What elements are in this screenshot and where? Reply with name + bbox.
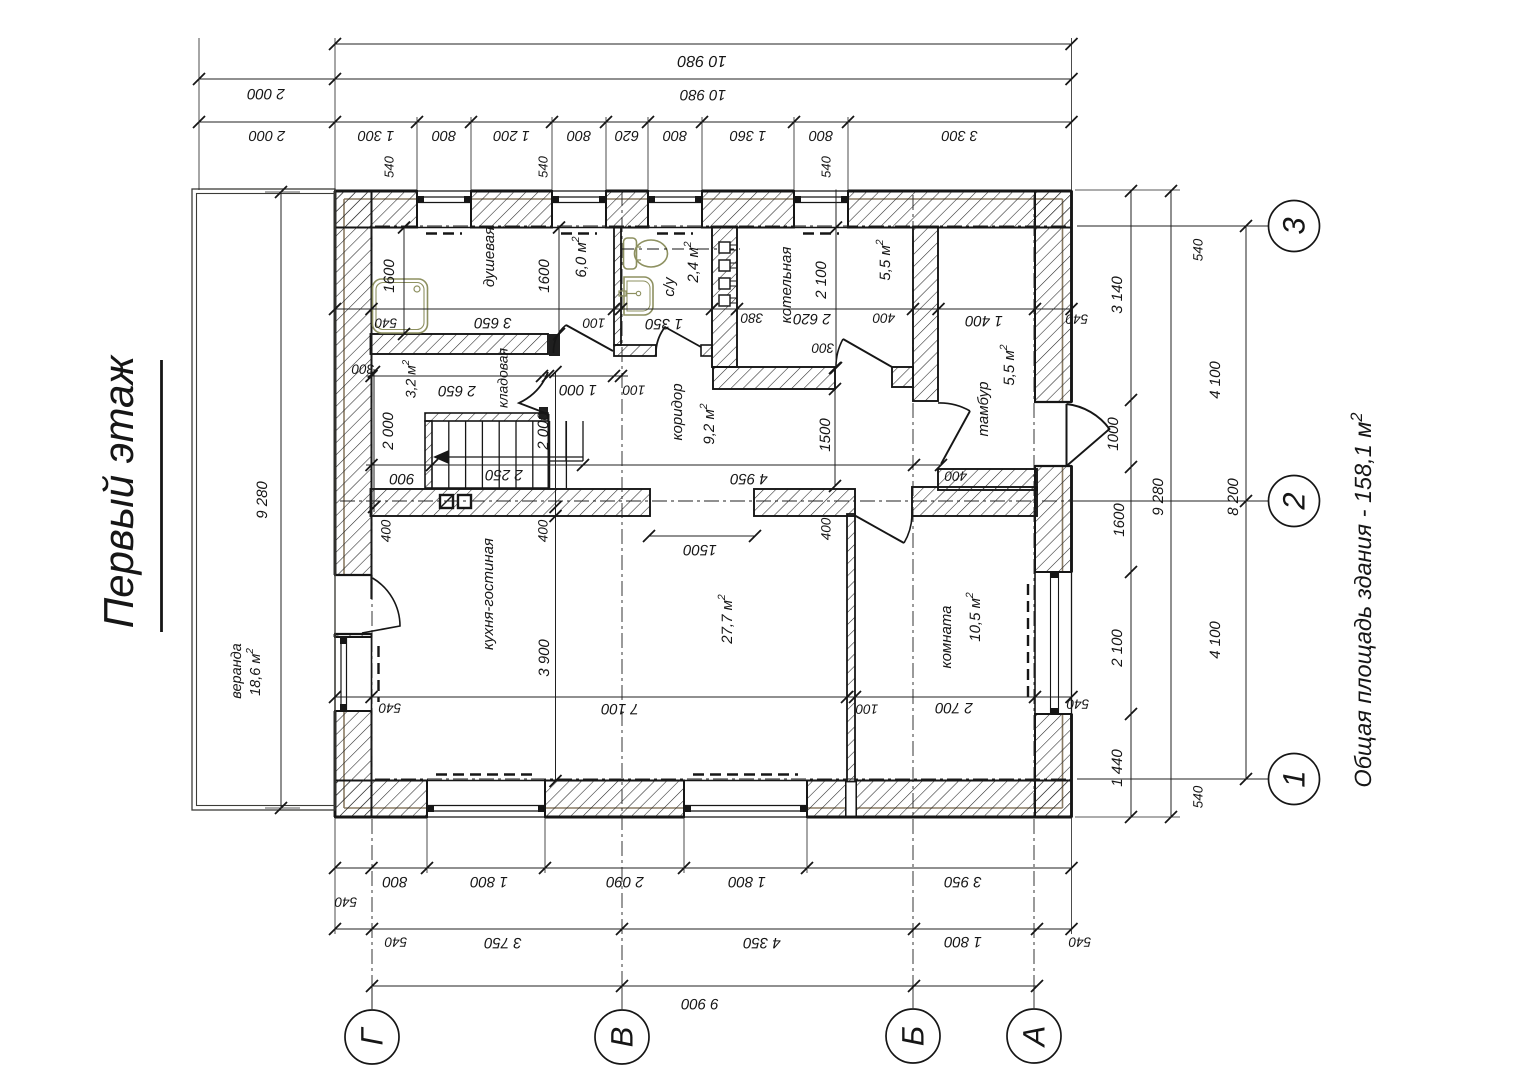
svg-text:комната: комната <box>938 606 955 669</box>
axis bubble Б <box>886 1009 940 1063</box>
svg-text:2 000: 2 000 <box>535 412 552 451</box>
door vestibule->hall <box>941 411 970 464</box>
svg-text:540: 540 <box>384 934 407 949</box>
interior dim chain y376 pantry/hall <box>366 375 628 377</box>
window in right wall (room) <box>1071 572 1073 714</box>
shower width dims 1600 <box>403 226 405 334</box>
svg-text:27,7 м2: 27,7 м2 <box>716 594 736 645</box>
svg-text:900: 900 <box>389 470 415 487</box>
svg-text:800: 800 <box>809 127 833 143</box>
svg-text:2 000: 2 000 <box>380 412 397 451</box>
svg-text:1 300: 1 300 <box>358 127 394 143</box>
window to veranda in left wall <box>334 637 336 711</box>
svg-text:2 000: 2 000 <box>247 85 286 102</box>
wall W10a: hall/kitchen wall left segment (400) <box>371 489 651 516</box>
wall W1: shower room south (300 thick) <box>371 334 549 354</box>
windows in bottom wall <box>427 816 545 818</box>
svg-text:100: 100 <box>855 701 878 716</box>
axis bubble 2 <box>1269 476 1320 527</box>
wall stub right of wc door <box>701 345 712 356</box>
svg-text:2 620: 2 620 <box>793 310 832 327</box>
stair treads <box>448 421 450 488</box>
svg-text:400: 400 <box>379 519 394 542</box>
wall: exterior bottom <box>335 781 427 818</box>
door wc <box>656 327 701 350</box>
svg-text:2 100: 2 100 <box>813 261 830 300</box>
svg-text:2 250: 2 250 <box>485 466 524 483</box>
axis bubble А <box>1007 1009 1061 1063</box>
wall W2: wc west partition (100) <box>614 227 621 346</box>
wall W8: vestibule south upper <box>938 469 1037 490</box>
radiator under window <box>426 232 462 234</box>
svg-text:Общая площадь здания - 158,1 м: Общая площадь здания - 158,1 м2 <box>1348 412 1376 787</box>
wall W7: boiler/vestibule wall (400) <box>913 227 938 402</box>
door boiler room <box>843 339 892 367</box>
svg-text:540: 540 <box>1191 238 1206 261</box>
wall W3: wc south <box>614 345 656 356</box>
windows in top wall <box>417 190 471 192</box>
svg-text:3 140: 3 140 <box>1109 276 1126 314</box>
toilet <box>624 238 637 269</box>
wall W9: vestibule south lower / room north <box>912 487 1037 516</box>
svg-text:кухня-гостиная: кухня-гостиная <box>480 538 497 650</box>
left dim 9280 line at veranda <box>280 192 282 808</box>
svg-text:1500: 1500 <box>683 541 717 558</box>
svg-text:1 440: 1 440 <box>1109 749 1126 787</box>
shower tray <box>373 279 428 333</box>
axis line A (vertical x=1034) <box>1033 195 1035 986</box>
bottom dim chain B2 axes <box>335 928 1072 930</box>
axis bubble В <box>595 1010 649 1064</box>
radiator under window <box>436 773 536 775</box>
svg-text:3 900: 3 900 <box>536 639 553 677</box>
axis line 2 (horizontal y=501) <box>340 500 1080 502</box>
door veranda->kitchen <box>370 575 372 599</box>
svg-text:1 800: 1 800 <box>944 933 982 950</box>
svg-text:1 400: 1 400 <box>965 312 1003 329</box>
svg-text:В: В <box>605 1027 640 1048</box>
axis line 1 (horizontal y=779) <box>375 778 1080 780</box>
svg-text:4 350: 4 350 <box>743 934 781 951</box>
boiler width dim 2100 <box>835 190 837 369</box>
svg-text:800: 800 <box>432 127 456 143</box>
svg-text:1 360: 1 360 <box>730 127 766 143</box>
svg-text:6,0 м2: 6,0 м2 <box>570 236 590 277</box>
svg-text:с/у: с/у <box>661 276 678 297</box>
axis bubble 1 <box>1269 754 1320 805</box>
svg-text:А: А <box>1017 1026 1052 1049</box>
svg-text:18,6 м2: 18,6 м2 <box>245 648 264 696</box>
svg-text:3 950: 3 950 <box>944 873 982 890</box>
door jamb block shower <box>549 334 560 356</box>
svg-text:4 100: 4 100 <box>1207 361 1224 399</box>
wall W10b: hall/kitchen wall right segment <box>754 489 855 516</box>
svg-text:3 300: 3 300 <box>942 127 978 143</box>
svg-text:2 090: 2 090 <box>606 873 645 890</box>
svg-text:620: 620 <box>615 127 639 143</box>
wc centerline <box>622 248 740 250</box>
partition junction slot in bottom wall <box>846 781 856 818</box>
svg-text:1500: 1500 <box>817 418 834 452</box>
dim row 3: window chain on top wall <box>199 121 1072 123</box>
door pantry <box>519 372 548 414</box>
wall W6: boiler south (300) <box>713 367 835 389</box>
interior dim chain y697 kitchen/room <box>335 696 1072 698</box>
right extension lines <box>1075 189 1180 191</box>
building outer boundary thick edges <box>335 190 417 193</box>
svg-text:1000: 1000 <box>1105 417 1122 451</box>
svg-text:400: 400 <box>536 519 551 542</box>
right 8200 axes line <box>1245 226 1247 779</box>
stair dims 2000 <box>373 369 375 512</box>
radiator at right window <box>1027 584 1029 702</box>
axis line V (vertical x=622) <box>621 191 623 986</box>
svg-text:540: 540 <box>1065 311 1088 326</box>
svg-text:2 000: 2 000 <box>249 127 286 143</box>
svg-text:400: 400 <box>819 517 834 540</box>
radiator under window <box>693 773 798 775</box>
svg-text:380: 380 <box>740 310 763 325</box>
wall W14: pantry-stairs east line with door <box>548 414 550 489</box>
svg-text:1600: 1600 <box>1111 503 1128 537</box>
svg-text:100: 100 <box>622 382 645 397</box>
wall W5: wc/boiler wall (380) <box>712 227 737 368</box>
svg-text:2 650: 2 650 <box>438 382 477 399</box>
svg-text:3 750: 3 750 <box>484 934 522 951</box>
right 9280 line <box>1170 191 1172 817</box>
svg-text:400: 400 <box>872 310 895 325</box>
svg-text:540: 540 <box>374 315 397 330</box>
axis line B (vertical x=913) <box>912 195 914 986</box>
wall W15: kitchen/room partition (100) <box>847 514 855 782</box>
svg-text:540: 540 <box>535 155 550 177</box>
kitchen length dim 3900 <box>550 510 562 522</box>
perimeter insulation line (brown, segmented at openings) <box>344 198 417 200</box>
svg-text:котельная: котельная <box>778 247 795 324</box>
pier at boiler door <box>892 367 913 387</box>
svg-text:540: 540 <box>334 894 357 909</box>
axis bubble Г <box>345 1010 399 1064</box>
dim row 2: 2000 + 10980 <box>199 78 1072 80</box>
veranda outline (open porch) <box>192 189 335 810</box>
svg-text:10 980: 10 980 <box>677 52 726 69</box>
svg-text:10,5 м2: 10,5 м2 <box>964 592 984 642</box>
right col A window/door chain <box>1130 191 1132 817</box>
extension lines top <box>198 38 200 190</box>
kitchen wall equipment squares <box>440 495 453 508</box>
axis line 3 (horizontal y=226) <box>375 225 1080 227</box>
svg-text:540: 540 <box>378 700 401 715</box>
svg-text:10 980: 10 980 <box>679 86 726 103</box>
entrance door swing (opens out) <box>1066 404 1068 466</box>
axis line G (vertical x=372) <box>371 195 373 986</box>
svg-text:5,5 м2: 5,5 м2 <box>874 239 894 280</box>
svg-text:1: 1 <box>1277 770 1312 787</box>
svg-text:8 200: 8 200 <box>1225 478 1242 516</box>
svg-text:кладовая: кладовая <box>495 347 511 408</box>
kitchen opening dim 1500 <box>649 535 755 537</box>
boiler south wall 300 dim <box>829 362 841 374</box>
svg-text:9 280: 9 280 <box>1150 478 1167 516</box>
svg-text:9,2 м2: 9,2 м2 <box>698 403 718 444</box>
svg-text:веранда: веранда <box>229 643 245 699</box>
interior dim chain y465 hall length <box>366 464 941 466</box>
svg-text:100: 100 <box>582 315 605 330</box>
svg-text:540: 540 <box>1066 696 1089 711</box>
svg-text:1600: 1600 <box>381 259 398 293</box>
svg-text:3 650: 3 650 <box>474 314 512 331</box>
radiator under window <box>561 232 597 234</box>
svg-text:2: 2 <box>1277 492 1312 510</box>
svg-text:1 200: 1 200 <box>493 127 529 143</box>
svg-text:7 100: 7 100 <box>601 700 639 717</box>
axis bubble 3 <box>1269 201 1320 252</box>
wall: exterior right <box>1035 191 1072 402</box>
svg-text:2 700: 2 700 <box>935 699 974 716</box>
wall: exterior top (street side O-right) <box>335 191 417 228</box>
svg-text:540: 540 <box>1191 785 1206 808</box>
entrance door opening <box>1035 401 1072 403</box>
radiator under window <box>657 232 693 234</box>
boiler equipment squares on wall <box>719 242 730 253</box>
svg-text:540: 540 <box>818 155 833 177</box>
svg-text:тамбур: тамбур <box>975 382 992 437</box>
hall-south opening 1500 vertical <box>834 389 836 486</box>
svg-text:2,4 м2: 2,4 м2 <box>682 241 702 283</box>
svg-text:4 100: 4 100 <box>1207 621 1224 659</box>
bottom total 9900 <box>372 985 1037 987</box>
svg-text:коридор: коридор <box>669 383 686 440</box>
wash basin <box>624 277 653 315</box>
svg-text:540: 540 <box>381 155 396 177</box>
bottom extension lines <box>334 817 336 934</box>
svg-text:душевая: душевая <box>481 227 498 287</box>
svg-text:Г: Г <box>355 1026 390 1045</box>
dim row 1 total 10980 <box>335 43 1072 45</box>
svg-text:540: 540 <box>1068 934 1091 949</box>
svg-text:9 900: 9 900 <box>681 995 719 1012</box>
svg-text:400: 400 <box>944 468 967 483</box>
svg-text:1 800: 1 800 <box>728 873 766 890</box>
radiator under window <box>803 232 839 234</box>
svg-text:3: 3 <box>1277 217 1312 234</box>
svg-text:300: 300 <box>811 340 834 355</box>
door jamb block pantry <box>539 407 548 419</box>
door hall->room (komnata) <box>854 515 904 543</box>
svg-text:4 950: 4 950 <box>730 470 768 487</box>
wall: exterior left (veranda side) <box>335 191 372 575</box>
door shower room <box>566 325 613 351</box>
radiator at veranda window <box>377 646 379 702</box>
svg-text:800: 800 <box>663 127 687 143</box>
svg-text:1 350: 1 350 <box>645 315 683 332</box>
svg-text:5,5 м2: 5,5 м2 <box>998 344 1018 385</box>
svg-text:800: 800 <box>382 873 408 890</box>
stair enclosure walls (thin) <box>425 413 548 421</box>
svg-text:2 100: 2 100 <box>1109 629 1126 668</box>
svg-text:1600: 1600 <box>536 259 553 293</box>
stair direction arrow <box>447 456 583 458</box>
svg-text:1 800: 1 800 <box>470 873 508 890</box>
svg-text:Первый этаж: Первый этаж <box>95 354 142 629</box>
svg-text:Б: Б <box>896 1026 931 1046</box>
svg-text:1 000: 1 000 <box>559 381 597 398</box>
svg-text:9 280: 9 280 <box>254 481 271 519</box>
bottom dim chain B1 windows <box>335 867 1072 869</box>
svg-text:800: 800 <box>567 127 591 143</box>
interior dim chain y309 <box>335 308 1072 310</box>
